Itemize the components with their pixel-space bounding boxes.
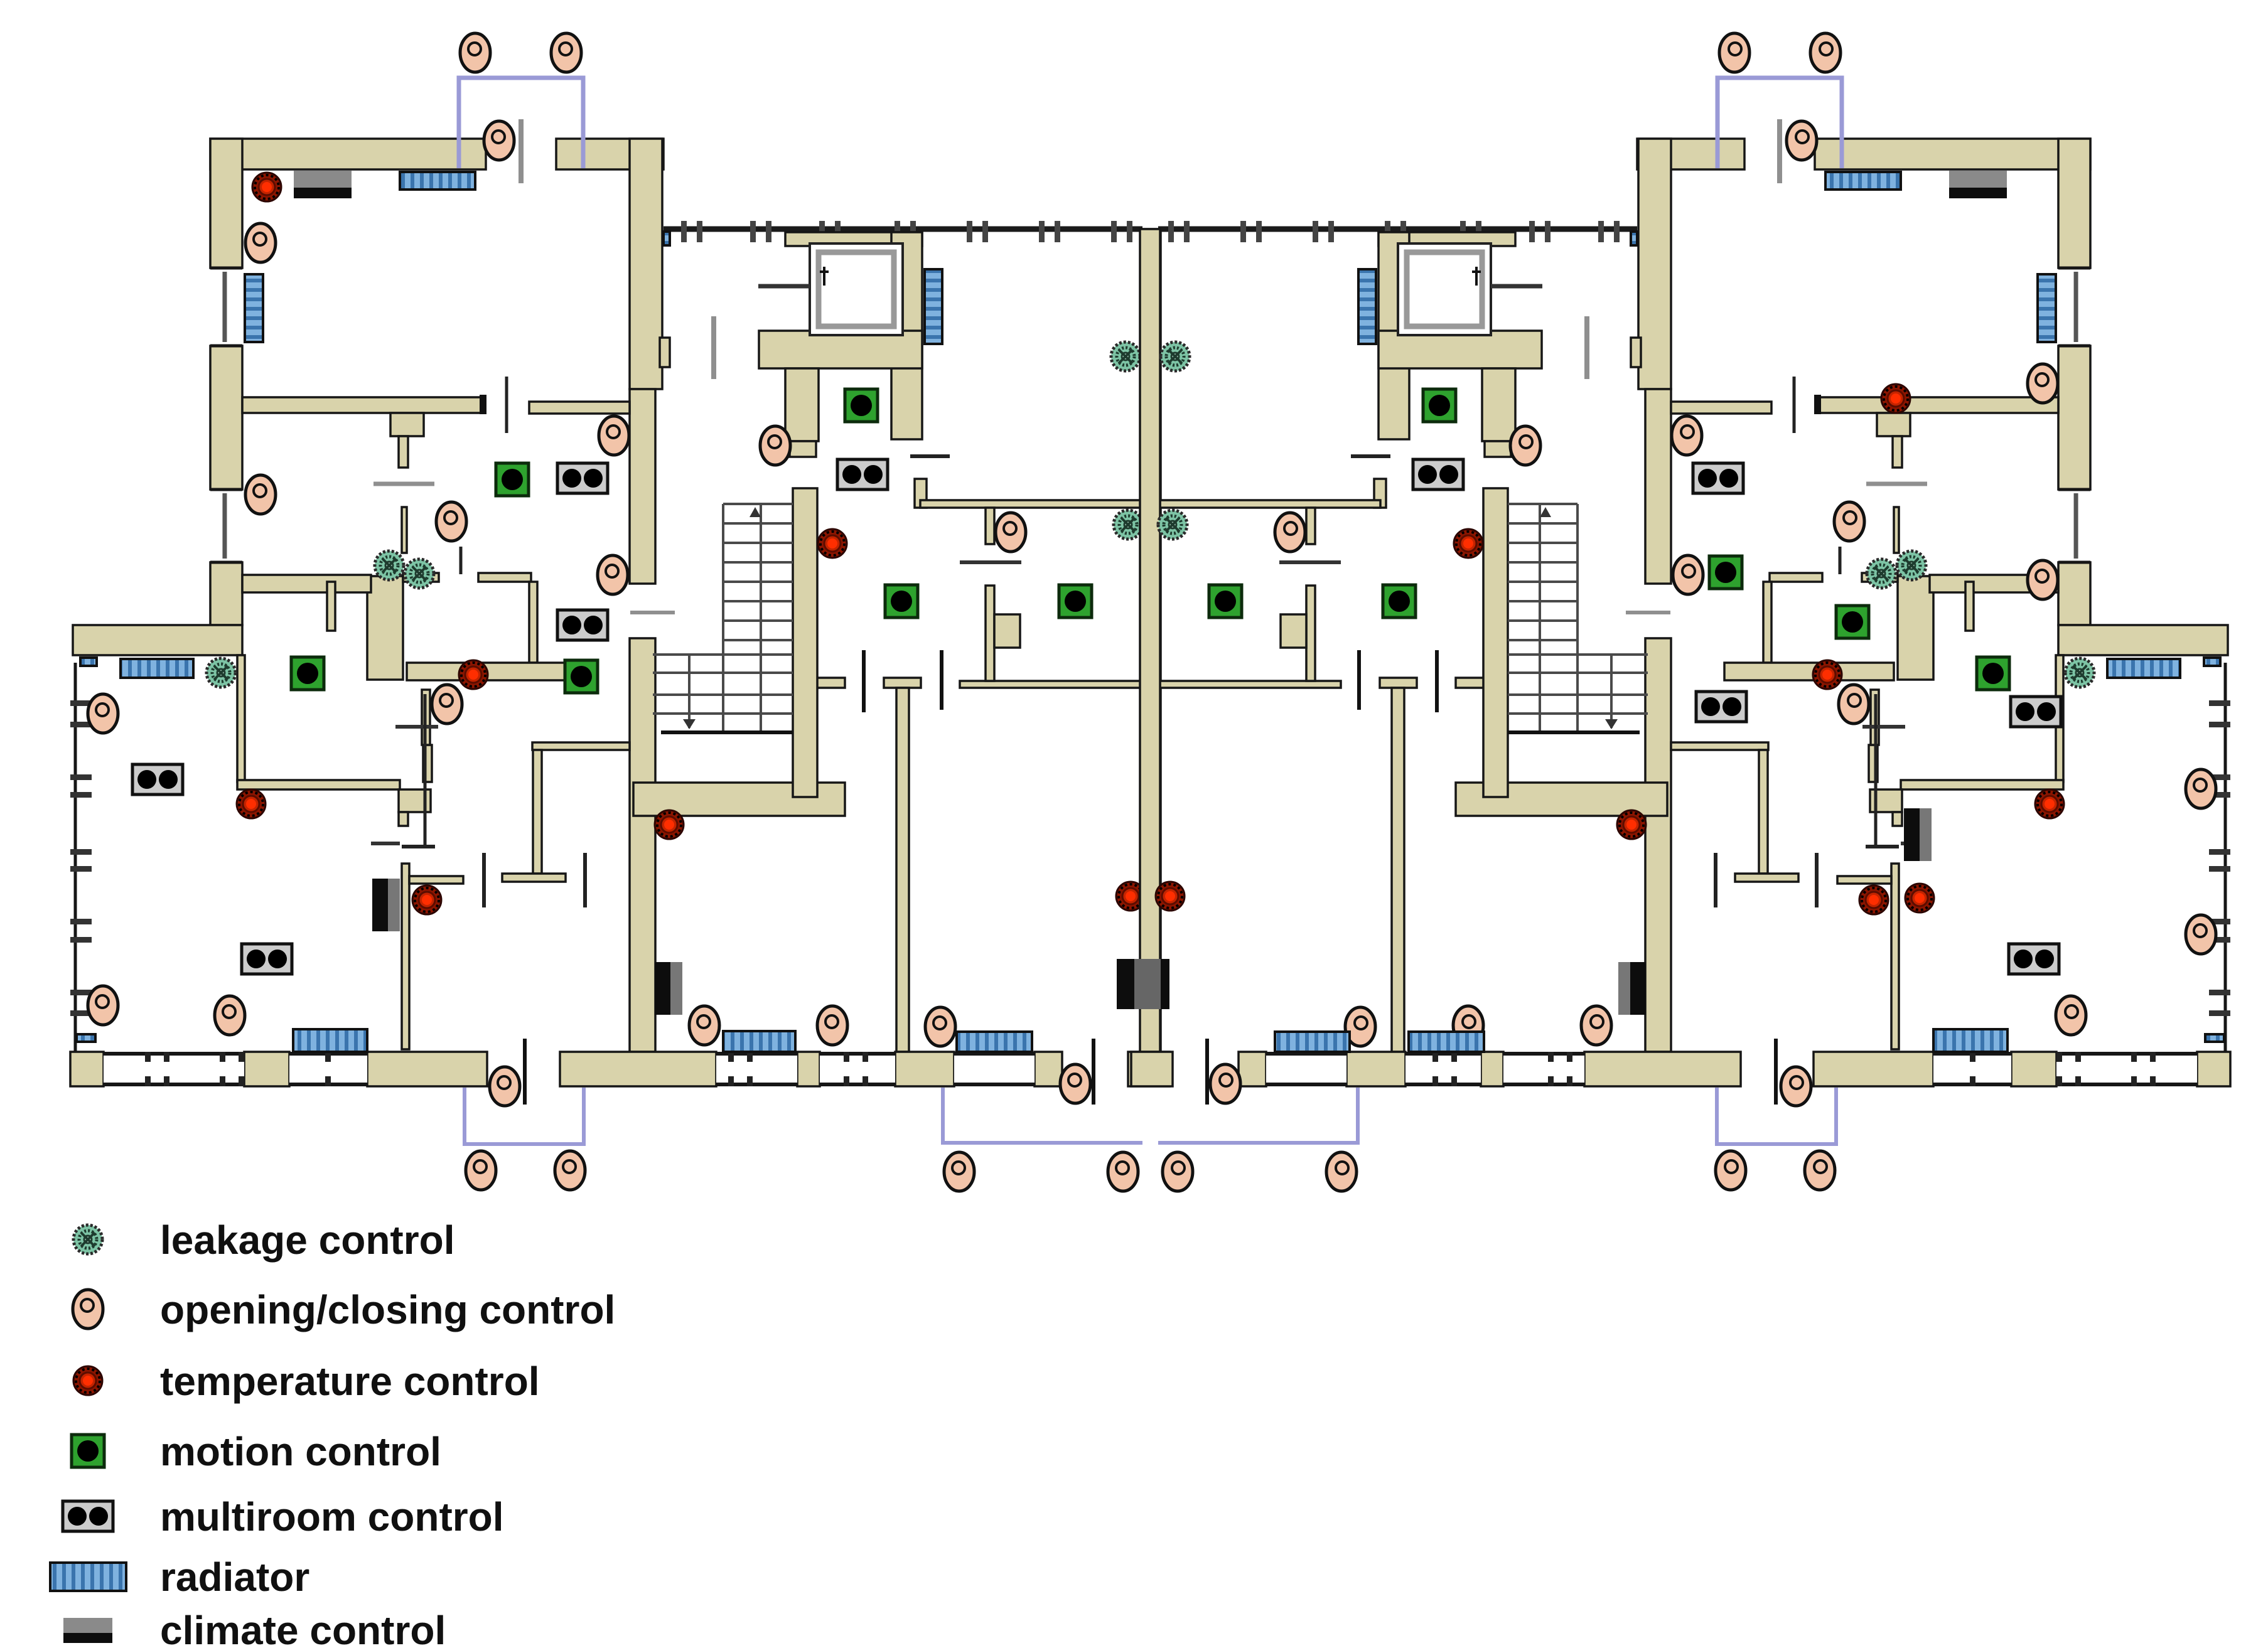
legend row: opening/closing control bbox=[73, 1290, 103, 1329]
leakage control L5 bbox=[1114, 510, 1142, 539]
wall bedroom west bbox=[533, 750, 542, 874]
svg-text:temperature control: temperature control bbox=[160, 1359, 540, 1404]
wall pillar bbox=[390, 413, 424, 436]
radiator small top wing bbox=[80, 658, 97, 666]
climate control center bbox=[1117, 959, 1169, 1009]
opening/closing control O12 bbox=[760, 426, 790, 465]
balcony bottom central bbox=[943, 1088, 1142, 1143]
temperature control T3 bbox=[459, 660, 488, 689]
wall kitchen west bbox=[237, 655, 245, 782]
opening/closing control O1 bbox=[460, 33, 490, 72]
wall closet west bbox=[986, 586, 994, 681]
multiroom control right wing bbox=[2011, 697, 2061, 727]
door leaf closet bbox=[371, 842, 400, 845]
wall east of wing lower bbox=[402, 864, 409, 1049]
svg-text:motion control: motion control bbox=[160, 1429, 441, 1474]
climate control left wing bbox=[372, 879, 400, 931]
motion control M1 bbox=[291, 657, 324, 690]
balcony top-left bbox=[459, 78, 583, 168]
temperature control T7 bbox=[1116, 882, 1145, 911]
wall central divider bbox=[1141, 229, 1161, 1052]
window south bbox=[820, 1052, 895, 1086]
legend climate icon bbox=[63, 1618, 112, 1633]
opening/closing control O5 bbox=[436, 502, 466, 541]
door leaf corridor bbox=[711, 316, 716, 379]
wall block bbox=[399, 789, 431, 812]
opening/closing control east wall upper bbox=[2028, 364, 2058, 403]
door dash balcony door bbox=[523, 1039, 527, 1105]
wall stair south bbox=[633, 783, 845, 816]
radiator small bbox=[664, 232, 670, 245]
climate control hall wall bbox=[655, 962, 682, 1015]
svg-text:multiroom control: multiroom control bbox=[160, 1494, 504, 1539]
radiator south left-b bbox=[957, 1032, 1032, 1052]
leakage control L2 bbox=[375, 551, 404, 580]
motion control left lower bbox=[565, 660, 598, 693]
wall bath west bbox=[367, 576, 403, 680]
elevator bbox=[810, 243, 903, 335]
wall west outer lower bbox=[210, 562, 242, 625]
window south bbox=[954, 1052, 1035, 1086]
door dash bedroom west bbox=[482, 853, 486, 907]
temperature control T2 bbox=[237, 789, 266, 818]
door leaf lobby bbox=[758, 284, 810, 289]
opening/closing control west wall lower bbox=[245, 475, 276, 514]
wall top room bottom east bbox=[529, 402, 630, 414]
wall bath north west bbox=[403, 573, 439, 582]
wall south facade pier bbox=[560, 1052, 716, 1086]
wall bath north east bbox=[478, 573, 531, 582]
temperature control T1 top-left room bbox=[252, 173, 281, 201]
wall stair east bbox=[793, 488, 817, 797]
leakage control L1 bbox=[207, 658, 235, 687]
opening/closing control O14 bbox=[817, 1006, 847, 1045]
wall south facade pier bbox=[895, 1052, 954, 1086]
wall south facade pier bbox=[797, 1052, 820, 1086]
opening/closing control O19 bbox=[689, 1006, 719, 1045]
wall corridor south stub bbox=[814, 678, 845, 688]
wall top room bottom west bbox=[242, 397, 485, 413]
wall south facade pier bbox=[1035, 1052, 1062, 1086]
window south bbox=[716, 1052, 797, 1086]
door leaf bbox=[960, 560, 1021, 564]
wall east of wing upper bbox=[422, 690, 430, 745]
wall pier hall west bbox=[660, 338, 670, 367]
opening/closing control terrace east lower bbox=[2186, 915, 2216, 954]
motion control M3 bbox=[885, 585, 918, 618]
leakage control L4 bbox=[1111, 342, 1140, 371]
radiator vertical by elevator bbox=[925, 269, 942, 344]
door leaf wing room bbox=[402, 845, 435, 848]
wall kitchen south bbox=[237, 780, 400, 789]
opening/closing control O4 bbox=[215, 996, 245, 1035]
door leaf bbox=[395, 725, 438, 729]
wall top-left room top (east part) bbox=[556, 139, 664, 169]
opening/closing control O7 bbox=[599, 416, 629, 455]
wall pillar stem bbox=[399, 436, 408, 468]
wall lobby arm end bbox=[790, 441, 816, 457]
wall kitchen north bbox=[242, 575, 371, 592]
legend row: motion control bbox=[72, 1435, 104, 1467]
window south bbox=[104, 1052, 244, 1086]
wall hall west upper bbox=[630, 139, 662, 389]
wall divider base bbox=[1128, 1052, 1169, 1086]
wall south facade pier bbox=[244, 1052, 289, 1086]
motion control left hall bbox=[496, 463, 529, 496]
wall stub bbox=[423, 745, 432, 782]
opening/closing control O11 bbox=[555, 1151, 585, 1190]
door dash bedroom east bbox=[583, 853, 587, 907]
door dash bbox=[505, 377, 508, 433]
wall bath east bbox=[529, 582, 537, 663]
radiator west window bbox=[245, 274, 263, 342]
window west wall upper bbox=[210, 268, 242, 346]
multiroom control left bedroom bbox=[557, 610, 608, 640]
radiator top room bbox=[400, 172, 475, 190]
wall stub kitchen bbox=[327, 582, 335, 631]
wall lobby arm bbox=[785, 368, 819, 441]
wall top-left room top (west part) bbox=[210, 139, 486, 169]
motion control M4 bbox=[1059, 585, 1092, 618]
wall hall west middle bbox=[630, 389, 655, 584]
radiator south left-a bbox=[723, 1031, 795, 1052]
wall west outer upper bbox=[210, 139, 242, 268]
wall stub below bbox=[986, 508, 994, 544]
opening/closing control O15 bbox=[925, 1007, 955, 1046]
temperature control T4 bbox=[412, 886, 441, 914]
multiroom control left wing bbox=[132, 764, 183, 795]
stairs left stairwell bbox=[653, 504, 793, 732]
wall line thin bbox=[424, 694, 427, 848]
wall below elevator bbox=[759, 331, 922, 368]
door leaf bbox=[374, 482, 434, 486]
opening/closing control O13 bbox=[996, 513, 1026, 552]
radiator small corner bbox=[77, 1034, 95, 1042]
window south bbox=[289, 1052, 367, 1086]
radiator south 1 bbox=[293, 1029, 367, 1052]
opening/closing control O17 bbox=[944, 1152, 974, 1191]
svg-text:radiator: radiator bbox=[160, 1554, 309, 1600]
wall closet north bbox=[409, 876, 463, 884]
wall south facade pier bbox=[70, 1052, 104, 1086]
opening/closing control O8 bbox=[598, 555, 628, 594]
door leaf balcony bbox=[519, 119, 524, 183]
wall bedroom north bbox=[532, 742, 630, 750]
opening/closing control O6 bbox=[432, 685, 462, 724]
wall stub above bath bbox=[402, 507, 407, 553]
legend row: leakage control bbox=[73, 1225, 102, 1254]
opening/closing control O16 bbox=[1060, 1064, 1090, 1103]
door leaf stair entry bbox=[630, 611, 675, 614]
wall south facade pier bbox=[367, 1052, 487, 1086]
opening/closing control O2 bbox=[551, 33, 581, 72]
wall west outer middle bbox=[210, 346, 242, 490]
temperature control top-right room bbox=[1881, 384, 1910, 413]
balcony railing ticks bbox=[681, 221, 687, 242]
motion control M2 bbox=[845, 389, 878, 422]
wall stub L bbox=[915, 479, 927, 508]
legend row: temperature control bbox=[73, 1366, 102, 1395]
svg-text:leakage control: leakage control bbox=[160, 1217, 455, 1263]
opening/closing control O3 bbox=[484, 121, 514, 160]
door dash balcony door bbox=[1092, 1039, 1095, 1105]
wall elevator east bbox=[891, 232, 922, 439]
terrace rail west bbox=[74, 663, 77, 1085]
opening/closing control O18 bbox=[1108, 1152, 1138, 1191]
opening/closing control terrace west lower bbox=[88, 986, 118, 1025]
legend bbox=[63, 1217, 615, 1648]
door dash bbox=[910, 454, 950, 458]
wall bath south bbox=[407, 663, 576, 680]
opening/closing control terrace west upper bbox=[88, 694, 118, 733]
leakage control L3 bbox=[405, 559, 434, 588]
temperature control T5 bbox=[818, 529, 847, 558]
climate control right wing bbox=[1904, 808, 1932, 861]
wall corridor south east bbox=[960, 681, 1141, 688]
opening/closing control west wall upper bbox=[245, 223, 276, 262]
balcony bottom left wing bbox=[465, 1088, 584, 1144]
wall stem bbox=[399, 812, 408, 826]
wall apt north bbox=[920, 500, 1141, 508]
legend radiator icon bbox=[50, 1563, 126, 1591]
opening/closing control O9 bbox=[490, 1067, 520, 1106]
multiroom control R3 bbox=[557, 463, 608, 493]
stair landing edge bbox=[661, 730, 793, 734]
temperature control T6 bbox=[655, 810, 684, 839]
wall bedroom T bbox=[502, 874, 566, 882]
multiroom control right bedroom bbox=[1696, 692, 1746, 722]
multiroom control R4 bbox=[837, 459, 888, 490]
door dash bbox=[940, 650, 943, 710]
terrace railing ticks bbox=[70, 700, 92, 706]
climate control C1 bbox=[294, 171, 352, 198]
wall hall west lower bbox=[630, 638, 655, 1052]
radiator lower wing top bbox=[121, 659, 193, 678]
balcony railing north bbox=[664, 227, 1142, 232]
svg-text:climate control: climate control bbox=[160, 1608, 446, 1648]
motion control right lower bbox=[1836, 606, 1869, 638]
legend row: multiroom control bbox=[63, 1501, 113, 1531]
wall lower wing top bbox=[73, 625, 242, 655]
door dash bbox=[460, 547, 463, 574]
opening/closing control O10 bbox=[466, 1151, 496, 1190]
svg-text:opening/closing control: opening/closing control bbox=[160, 1287, 615, 1332]
motion control right hall bbox=[1709, 556, 1742, 589]
wall rooms divider bbox=[896, 688, 909, 1052]
radiator south right-a bbox=[1275, 1032, 1350, 1052]
wall lobby north bbox=[785, 232, 922, 246]
radiator south right-b bbox=[1409, 1032, 1484, 1052]
temperature control right wing extra bbox=[1905, 884, 1934, 912]
multiroom control R2 bbox=[242, 944, 292, 974]
wall closet box bbox=[994, 614, 1020, 648]
door dash bbox=[862, 650, 866, 712]
opening/closing control terrace east upper bbox=[2186, 769, 2216, 808]
window west wall lower bbox=[210, 490, 242, 562]
opening/closing control east wall lower bbox=[2028, 560, 2058, 599]
wall corridor south T bbox=[884, 678, 921, 688]
